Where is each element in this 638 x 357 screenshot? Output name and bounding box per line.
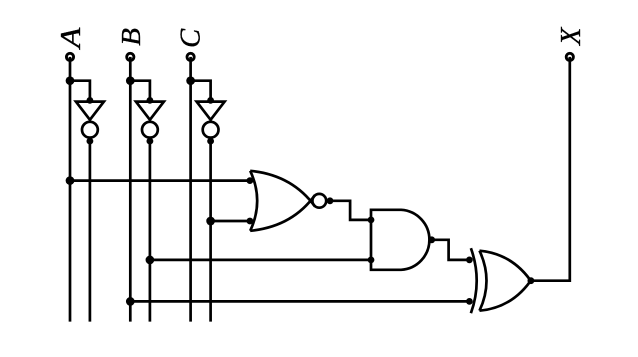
svg-text:C: C (176, 28, 207, 48)
wire B vertical (129, 57, 132, 322)
and-gate U5 (368, 210, 436, 270)
wire C to inverter U3 (191, 81, 211, 102)
wire C-inverted to NOR bottom input (211, 220, 250, 223)
junction B to XOR (126, 297, 135, 306)
inverter U1 (76, 97, 104, 145)
xor-gate U6 (466, 248, 534, 313)
junction B-inverted to AND (146, 256, 155, 265)
wire A vertical (69, 57, 72, 322)
terminal B (127, 53, 134, 60)
inverter U3 (197, 97, 225, 145)
label C (176, 28, 207, 48)
wire B to inverter U2 (130, 81, 150, 102)
label A (56, 27, 87, 50)
svg-text:X: X (556, 26, 587, 46)
label B (116, 28, 146, 46)
junction C branch (186, 76, 195, 85)
terminal A (66, 53, 73, 60)
wire B-inverted vertical (149, 141, 152, 322)
junction A to NOR (66, 176, 75, 185)
wire B to XOR bottom input (130, 300, 469, 303)
junction B branch (126, 76, 135, 85)
wire C vertical (189, 57, 192, 322)
terminal X (566, 53, 573, 60)
wire B-inverted to AND bottom input (150, 259, 371, 262)
nor-gate U4 (247, 171, 334, 231)
wire XOR output to terminal X (531, 57, 570, 281)
inverter U2 (136, 97, 164, 145)
junction A branch (66, 76, 75, 85)
wire A-inverted vertical (89, 141, 92, 322)
svg-text:A: A (56, 27, 87, 50)
terminal C (187, 53, 194, 60)
wire C-inverted vertical (209, 141, 212, 322)
label X (556, 26, 587, 46)
wire AND output to XOR top input (432, 240, 470, 260)
wire A to NOR top input (70, 179, 250, 182)
wire A to inverter U1 (70, 81, 90, 102)
wire NOR output to AND top input (330, 201, 371, 220)
junction C-inverted to NOR (206, 217, 215, 226)
svg-text:B: B (116, 28, 146, 46)
